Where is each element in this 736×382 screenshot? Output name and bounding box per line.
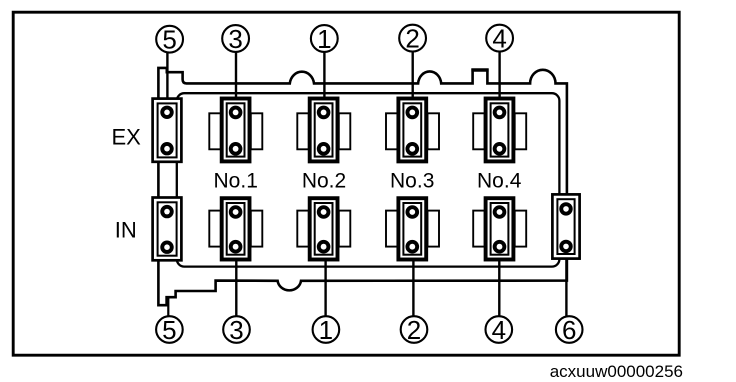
callout circle bottom 5: [156, 315, 183, 345]
svg-text:5: 5: [162, 25, 176, 55]
svg-text:1: 1: [317, 24, 331, 54]
callout circle top 3: [222, 24, 249, 54]
head inner gasket-surface rounded rectangle: [177, 93, 560, 266]
camshaft cap EX end (front, No.5 position): [153, 99, 182, 162]
svg-text:1: 1: [319, 315, 333, 345]
svg-text:2: 2: [405, 24, 419, 54]
leader wire top 5: [166, 52, 168, 98]
leader wire top 2: [412, 51, 414, 98]
callout circle top 4: [486, 24, 513, 54]
svg-text:IN: IN: [115, 218, 137, 243]
leader wire top 3: [235, 52, 237, 98]
camshaft cap rear (No.6 position): [552, 194, 579, 258]
svg-text:4: 4: [492, 315, 506, 345]
leader wire bottom 1: [324, 260, 326, 316]
svg-text:No.3: No.3: [390, 170, 434, 193]
camshaft cap IN No.3: [386, 198, 439, 259]
svg-text:acxuuw00000256: acxuuw00000256: [550, 362, 683, 381]
leader wire bottom 4: [498, 260, 500, 316]
camshaft cap IN No.4: [473, 198, 526, 259]
cylinder head outer outline: [158, 68, 567, 305]
leader wire bottom 5: [167, 297, 169, 317]
svg-text:5: 5: [162, 315, 176, 345]
camshaft cap EX No.3: [386, 99, 439, 162]
callout circle bottom 3: [223, 315, 250, 345]
callout circle top 2: [399, 24, 426, 54]
callout circle bottom 2: [401, 315, 428, 345]
callout circle bottom 4: [486, 315, 513, 345]
svg-text:6: 6: [562, 315, 576, 345]
camshaft cap IN No.1: [209, 198, 262, 259]
svg-text:2: 2: [407, 315, 421, 345]
svg-text:No.2: No.2: [302, 170, 346, 193]
callout circle bottom 6: [556, 315, 583, 345]
camshaft cap IN end (front, No.5 position): [153, 198, 182, 261]
camshaft cap EX No.1: [209, 99, 262, 162]
square notch top bar: [471, 68, 488, 71]
leader wire bottom 6: [565, 258, 567, 316]
callout circle bottom 1: [313, 315, 340, 345]
camshaft cap IN No.2: [297, 198, 350, 259]
svg-text:No.4: No.4: [477, 170, 522, 193]
camshaft cap EX No.2: [297, 99, 350, 162]
callout circle top 5: [156, 25, 183, 55]
leader wire top 4: [498, 51, 500, 98]
callout circle top 1: [311, 24, 338, 54]
svg-text:No.1: No.1: [214, 170, 258, 193]
camshaft cap EX No.4: [473, 99, 526, 162]
svg-text:EX: EX: [112, 125, 142, 150]
leader wire bottom 2: [412, 260, 414, 316]
svg-text:4: 4: [492, 24, 506, 54]
leader wire top 1: [323, 52, 325, 98]
svg-text:3: 3: [228, 24, 242, 54]
leader wire bottom 3: [235, 260, 237, 316]
svg-text:3: 3: [229, 315, 243, 345]
